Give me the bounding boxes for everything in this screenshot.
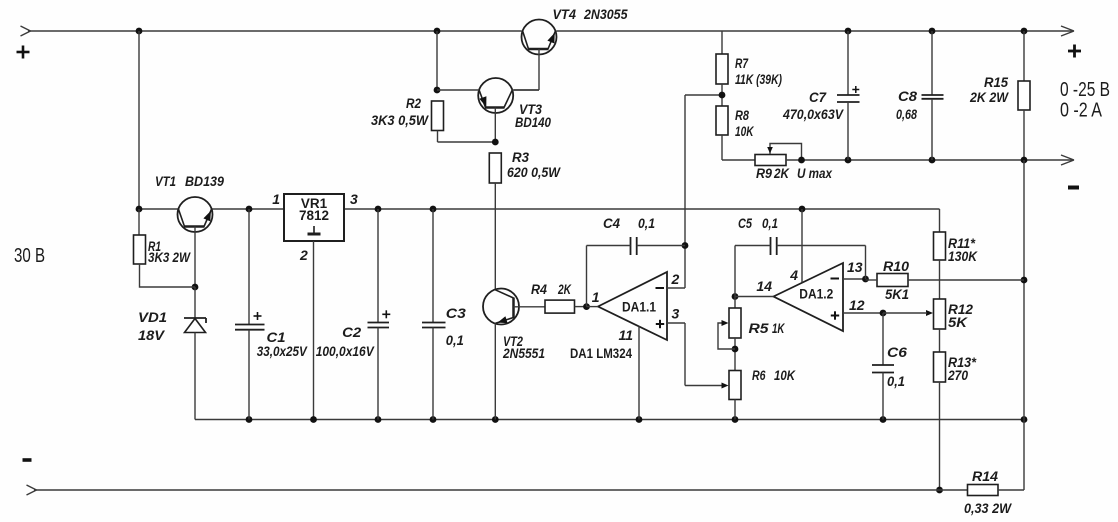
svg-text:3K3 0,5W: 3K3 0,5W xyxy=(371,113,429,128)
svg-text:C1: C1 xyxy=(267,330,286,345)
svg-text:VT4: VT4 xyxy=(553,7,577,22)
svg-text:R14: R14 xyxy=(972,469,999,484)
svg-text:C3: C3 xyxy=(446,306,467,321)
svg-text:2N3055: 2N3055 xyxy=(583,7,628,22)
svg-text:3K3 2W: 3K3 2W xyxy=(148,250,191,265)
svg-text:2N5551: 2N5551 xyxy=(502,346,545,361)
svg-text:5K1: 5K1 xyxy=(885,287,909,302)
svg-text:620 0,5W: 620 0,5W xyxy=(507,165,561,180)
svg-text:100,0x16V: 100,0x16V xyxy=(316,344,375,359)
svg-text:R6: R6 xyxy=(752,368,766,383)
svg-text:3: 3 xyxy=(672,306,680,322)
svg-text:0,1: 0,1 xyxy=(446,333,464,348)
svg-text:4: 4 xyxy=(789,267,798,283)
svg-text:5K: 5K xyxy=(948,315,968,330)
svg-text:C4: C4 xyxy=(603,216,620,231)
svg-text:BD140: BD140 xyxy=(515,115,551,130)
svg-text:12: 12 xyxy=(849,297,865,313)
svg-text:1K: 1K xyxy=(772,321,785,336)
svg-text:R7: R7 xyxy=(735,56,749,71)
svg-text:C5: C5 xyxy=(738,216,752,231)
svg-text:0,68: 0,68 xyxy=(896,107,917,122)
svg-text:2: 2 xyxy=(671,271,680,287)
svg-text:0 -2 A: 0 -2 A xyxy=(1060,100,1103,122)
svg-text:2K 2W: 2K 2W xyxy=(969,90,1009,105)
svg-text:R10: R10 xyxy=(883,259,910,274)
svg-text:13: 13 xyxy=(847,259,863,275)
svg-text:R4: R4 xyxy=(531,282,547,297)
svg-text:2: 2 xyxy=(299,247,308,263)
svg-text:C7: C7 xyxy=(809,90,827,105)
svg-text:R5: R5 xyxy=(749,321,770,336)
svg-text:C2: C2 xyxy=(342,325,362,340)
svg-text:VT1: VT1 xyxy=(155,174,176,189)
svg-text:R9: R9 xyxy=(756,166,772,181)
svg-text:C8: C8 xyxy=(898,89,918,104)
svg-text:7812: 7812 xyxy=(299,208,329,223)
svg-text:R8: R8 xyxy=(735,108,749,123)
svg-text:0,1: 0,1 xyxy=(887,374,905,389)
svg-text:0 -25 В: 0 -25 В xyxy=(1060,79,1110,101)
svg-text:10K: 10K xyxy=(774,368,796,383)
svg-text:2K: 2K xyxy=(557,282,572,297)
svg-text:33,0x25V: 33,0x25V xyxy=(257,344,308,359)
svg-text:DA1.2: DA1.2 xyxy=(799,287,833,302)
svg-text:2K: 2K xyxy=(773,166,790,181)
svg-text:BD139: BD139 xyxy=(185,174,224,189)
svg-text:R15: R15 xyxy=(984,75,1008,90)
svg-text:11K (39K): 11K (39K) xyxy=(735,72,782,87)
svg-text:270: 270 xyxy=(947,368,968,383)
svg-text:0,33 2W: 0,33 2W xyxy=(964,501,1012,516)
svg-text:10K: 10K xyxy=(735,124,754,139)
svg-text:470,0x63V: 470,0x63V xyxy=(782,107,844,122)
svg-text:3: 3 xyxy=(350,191,358,207)
svg-text:VD1: VD1 xyxy=(138,310,167,325)
svg-text:DA1 LM324: DA1 LM324 xyxy=(570,346,632,361)
svg-text:R3: R3 xyxy=(512,150,529,165)
svg-text:0,1: 0,1 xyxy=(762,216,778,231)
svg-text:R2: R2 xyxy=(406,96,421,111)
svg-text:1: 1 xyxy=(592,289,600,305)
svg-text:18V: 18V xyxy=(138,328,165,343)
svg-text:DA1.1: DA1.1 xyxy=(622,300,656,315)
svg-text:11: 11 xyxy=(618,327,633,343)
svg-text:30 В: 30 В xyxy=(14,245,45,267)
svg-text:C6: C6 xyxy=(887,345,908,360)
svg-text:14: 14 xyxy=(756,278,772,294)
svg-text:1: 1 xyxy=(272,191,280,207)
svg-text:U max: U max xyxy=(797,166,832,181)
svg-text:0,1: 0,1 xyxy=(638,216,655,231)
svg-text:130K: 130K xyxy=(948,249,978,264)
